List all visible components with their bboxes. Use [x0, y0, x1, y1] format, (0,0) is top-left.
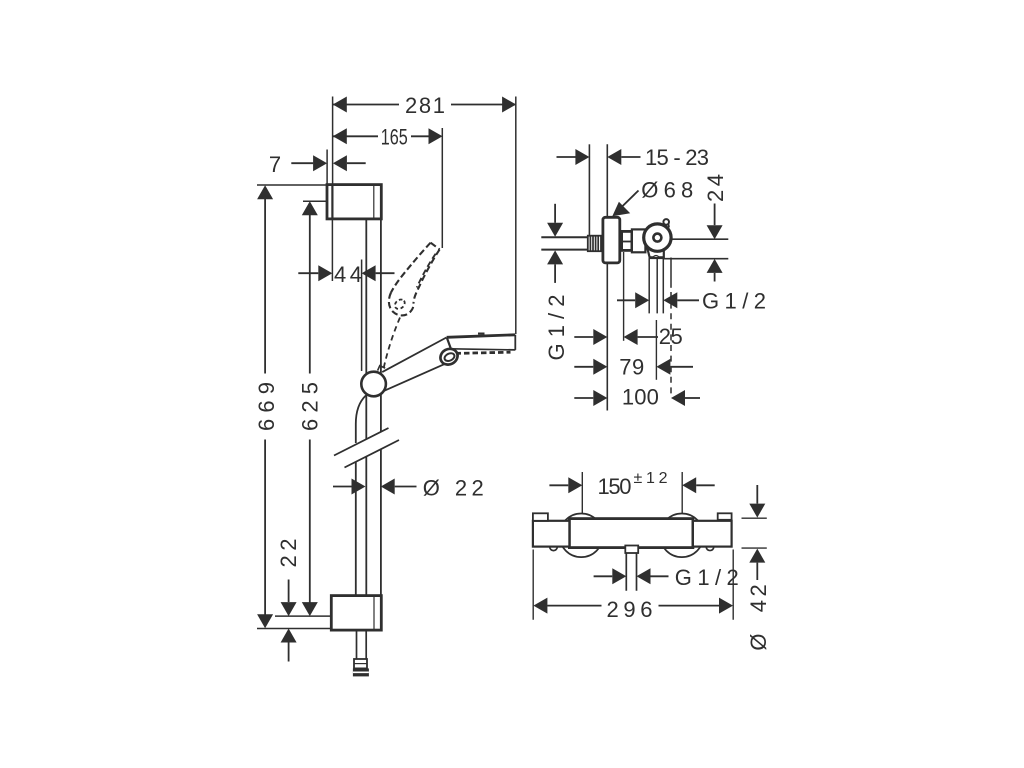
- wall flange escutcheon: [603, 217, 620, 263]
- head left cap inner: [443, 352, 455, 363]
- svg-text:G1/2: G1/2: [702, 289, 766, 314]
- ext lines 296: [533, 550, 733, 620]
- ext line plate left: [326, 150, 328, 185]
- bottom bracket: [331, 596, 381, 631]
- dim 625 line: [309, 203, 311, 614]
- dim 15-23 left line+arrow: [557, 156, 576, 158]
- dim 7 left arrow: [333, 155, 347, 171]
- hand shower handle (solid): [382, 338, 454, 391]
- head button: [478, 333, 485, 335]
- ext line 625 top: [303, 200, 327, 202]
- svg-text:296: 296: [607, 597, 653, 622]
- valve body: [632, 229, 646, 252]
- head left cap outer: [438, 346, 461, 368]
- svg-text:281: 281: [405, 93, 445, 118]
- shower head slab bottom: [451, 349, 515, 350]
- dashed head hook: [389, 293, 414, 316]
- bottom outlet nub: [625, 546, 638, 554]
- outlet bottom line right: [664, 258, 729, 260]
- dim 165 right arrow: [429, 128, 443, 144]
- svg-text:7: 7: [269, 152, 281, 177]
- ext line 165 right: [441, 128, 443, 248]
- dim 24 lower arrow+line: [707, 259, 723, 273]
- dim 24 upper line+arrow: [714, 204, 716, 226]
- ext line head right: [515, 97, 517, 335]
- valve axis line right: [672, 238, 729, 240]
- shower head right edge: [514, 335, 516, 350]
- drop left: [550, 547, 558, 551]
- bottom outlet lines: [626, 553, 636, 591]
- dim diam42 lower arrow+line: [749, 549, 765, 563]
- svg-text:G1/2: G1/2: [675, 565, 739, 590]
- dim 281 line: [333, 104, 515, 106]
- rod right line: [380, 219, 382, 596]
- ext line 44 left: [331, 219, 333, 281]
- diam68 leader: [617, 191, 639, 212]
- valve knob nub neck: [664, 224, 669, 228]
- dim 7 line right: [347, 162, 366, 164]
- drop right: [706, 547, 714, 551]
- outlet lines below: [649, 259, 663, 314]
- svg-text:Ø: Ø: [746, 633, 771, 650]
- ext line 625 bottom: [275, 615, 331, 617]
- escutcheon right: [660, 514, 704, 558]
- svg-text:100: 100: [622, 385, 659, 410]
- ext line 44 right: [361, 260, 363, 372]
- left knob: [533, 521, 570, 547]
- dashed shower left edge: [391, 243, 431, 293]
- hose connector nut: [354, 659, 367, 668]
- dim 165 line: [333, 135, 429, 137]
- dashed shower top face: [431, 243, 440, 250]
- dim 150 line+arrows: [549, 484, 568, 486]
- supply pipe: [541, 237, 588, 249]
- dim G1/2 pipe line+arrows: [554, 204, 556, 223]
- dim 669 line: [264, 187, 266, 626]
- hose connector tube: [357, 630, 367, 659]
- dim 669 top arrow: [257, 185, 273, 199]
- dim 44 left line+arrow: [298, 272, 318, 274]
- valve handle center: [653, 234, 661, 242]
- wall plate (top bracket): [327, 185, 381, 219]
- dim 44 right arrow+line: [362, 265, 376, 281]
- right knob top rect: [718, 513, 732, 520]
- valve outlet below: [647, 247, 664, 258]
- dim 7 right arrow: [313, 155, 327, 171]
- dashed shower right inner edge: [417, 254, 436, 288]
- dim 22 lower line+arrow: [288, 643, 290, 662]
- shower head spray face: [456, 352, 511, 353]
- svg-text:15 - 23: 15 - 23: [645, 145, 709, 170]
- dim 296 right arrow: [719, 598, 733, 614]
- dashed head inner ellipse: [393, 298, 407, 311]
- svg-text:150: 150: [598, 474, 632, 499]
- svg-text:625: 625: [297, 382, 322, 431]
- pipe thread ribs: [588, 236, 601, 252]
- svg-text:165: 165: [381, 125, 408, 150]
- ext line 669 top: [257, 184, 327, 186]
- head left end face: [447, 338, 451, 350]
- mixer bar body: [569, 519, 693, 548]
- dim diam42 upper line+arrow: [756, 485, 758, 504]
- slider holder circle: [361, 372, 386, 397]
- valve knob nub: [663, 219, 669, 225]
- dashed shower right edge: [414, 249, 440, 303]
- diam42 ext lines: [742, 518, 767, 548]
- wall line left: [588, 144, 590, 236]
- outlet notch: [653, 256, 658, 258]
- rod left line: [365, 219, 367, 596]
- ext line 25 (from union nut): [623, 252, 625, 341]
- dim 296 left arrow: [533, 598, 547, 614]
- dim 165 left arrow: [333, 128, 347, 144]
- right knob: [693, 521, 732, 547]
- svg-text:±12: ±12: [634, 470, 668, 487]
- ext lines 150: [582, 472, 682, 513]
- dim 625 bottom arrow: [302, 602, 318, 616]
- dim 281 right arrow: [502, 97, 516, 113]
- ext line wall surface: [332, 97, 334, 185]
- svg-text:25: 25: [659, 324, 683, 349]
- ext line 669 bottom: [257, 628, 331, 630]
- dashed hose line: [384, 318, 400, 368]
- svg-text:Ø68: Ø68: [641, 178, 693, 203]
- dim 669 bottom arrow: [257, 614, 273, 628]
- dim diam22 right line+arrow: [395, 486, 417, 488]
- union nut: [622, 231, 632, 250]
- dim diam22 left line+arrow: [333, 486, 352, 488]
- shower head top edge: [447, 335, 516, 338]
- svg-text:G1/2: G1/2: [544, 295, 569, 361]
- hose connector cap: [353, 668, 369, 676]
- dim 625 top arrow: [302, 201, 318, 215]
- valve handle circle: [644, 224, 671, 251]
- dim 281 left arrow: [333, 97, 347, 113]
- dim 22 upper line+arrow: [288, 580, 290, 603]
- dim 15-23 right arrow+line: [607, 149, 621, 165]
- dim 296 line: [547, 605, 719, 607]
- left knob top rect: [533, 513, 548, 521]
- dim 7 line left: [291, 162, 313, 164]
- slider nub: [378, 366, 386, 371]
- line at hose axis solid then dashed: [670, 258, 672, 288]
- break mark slashes: [334, 428, 399, 468]
- wall line right: [606, 144, 608, 410]
- svg-text:669: 669: [254, 382, 279, 431]
- hose: [356, 396, 366, 596]
- svg-text:79: 79: [619, 355, 644, 380]
- escutcheon left: [559, 514, 603, 558]
